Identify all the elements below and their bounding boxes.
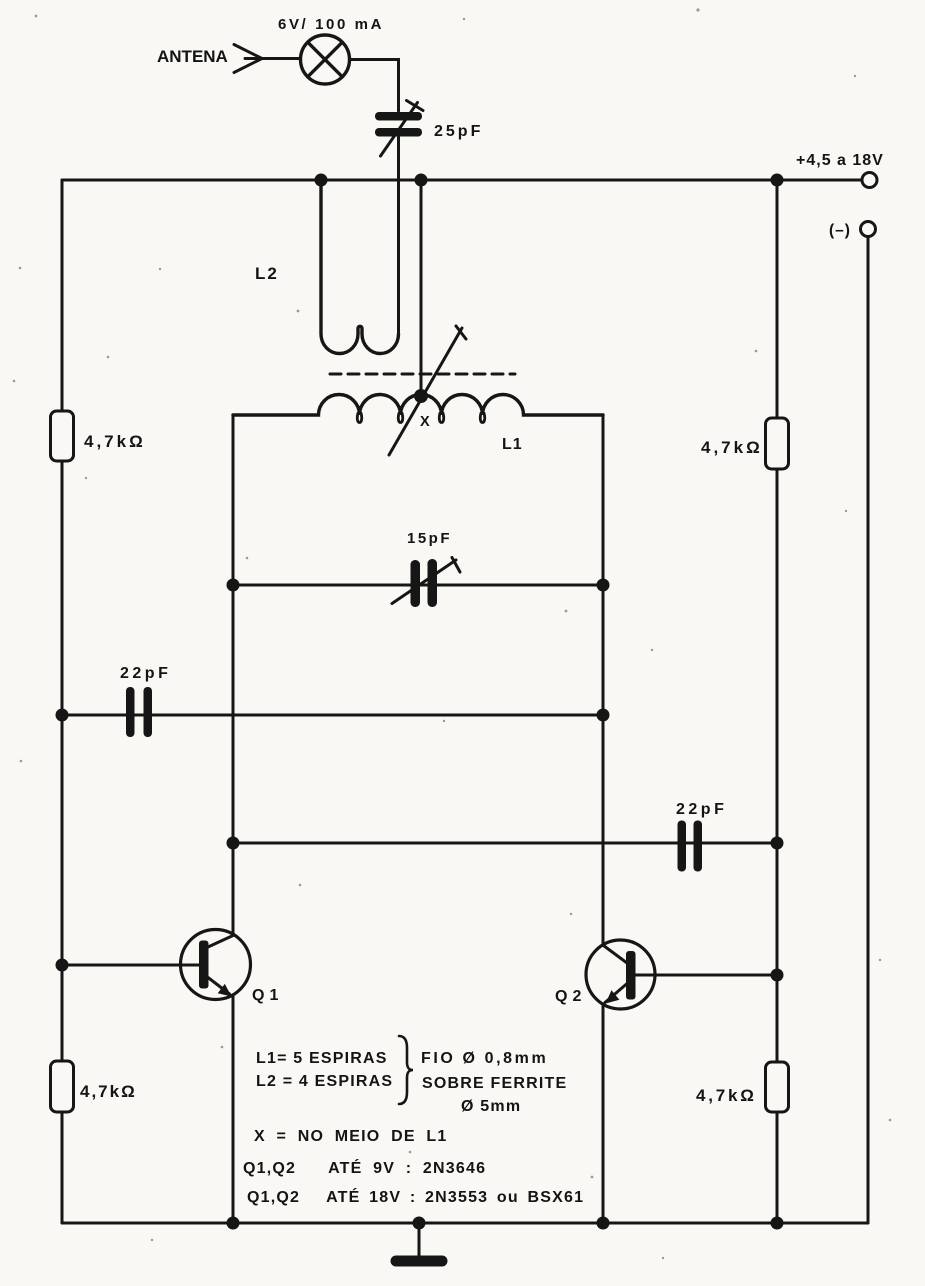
node Q2 base on right rail (771, 969, 784, 982)
svg-text:25pF: 25pF (434, 123, 483, 140)
node bottom bus left tank (227, 1217, 240, 1230)
terminal negative (861, 222, 876, 237)
svg-text:L2: L2 (255, 264, 279, 283)
wire right rail (776, 180, 779, 1223)
inductor L1 adjust arrow (389, 326, 466, 455)
wire right tank line upper (602, 415, 605, 945)
node 15pF right (597, 579, 610, 592)
transistor Q1 (181, 930, 251, 1000)
svg-text:6V/ 100 mA: 6V/ 100 mA (278, 16, 384, 33)
wire negative rail (867, 237, 870, 1223)
node bottom bus right tank (597, 1217, 610, 1230)
svg-text:4,7kΩ: 4,7kΩ (696, 1086, 757, 1105)
inductor L1 turn notches (357, 413, 484, 423)
svg-text:4,7kΩ: 4,7kΩ (80, 1082, 137, 1101)
node bottom bus ground (413, 1217, 426, 1230)
capacitor C4 22pF plates (678, 821, 703, 872)
svg-text:FIO Ø 0,8mm: FIO Ø 0,8mm (421, 1050, 548, 1067)
wire antenna to lamp (245, 57, 301, 60)
core dashed line (330, 373, 515, 376)
svg-text:4,7kΩ: 4,7kΩ (701, 438, 763, 457)
wire Q1 emitter down (232, 995, 235, 1223)
capacitor C1 trimmer arrow (381, 101, 424, 157)
svg-text:X = NO MEIO DE L1: X = NO MEIO DE L1 (254, 1128, 447, 1145)
node 22pF-R on left tank line (227, 837, 240, 850)
resistor R2 4,7k top-right (766, 418, 789, 469)
terminal positive (862, 173, 877, 188)
brace (399, 1036, 413, 1104)
svg-text:(–): (–) (829, 222, 851, 239)
resistor R4 4,7k bottom-right (766, 1062, 789, 1112)
inductor L1 (233, 395, 603, 416)
resistor R1 4,7k top-left (51, 411, 74, 461)
capacitor C2 trimmer arrow (392, 558, 460, 604)
svg-text:22pF: 22pF (676, 801, 727, 818)
svg-text:22pF: 22pF (120, 665, 171, 682)
wire top bus (62, 179, 862, 182)
transistor Q2 (586, 940, 655, 1009)
wire L1 center tap (420, 180, 423, 396)
node L2 junction on bus (315, 174, 328, 187)
capacitor C1 25pF plates (375, 112, 422, 137)
wire 15pF branch (233, 584, 603, 587)
svg-text:Q1,Q2 ATÉ 9V : 2N3646: Q1,Q2 ATÉ 9V : 2N3646 (243, 1158, 486, 1177)
svg-text:Q1: Q1 (252, 987, 283, 1004)
svg-text:Q2: Q2 (555, 988, 586, 1005)
wire capacitor down through bus (L2 right leg) (397, 137, 400, 333)
node right rail junction on bus (771, 174, 784, 187)
svg-text:L1= 5 ESPIRAS: L1= 5 ESPIRAS (256, 1050, 388, 1067)
node 22pF-R on right rail (771, 837, 784, 850)
node bottom bus right rail (771, 1217, 784, 1230)
svg-text:L2 = 4 ESPIRAS: L2 = 4 ESPIRAS (256, 1073, 393, 1090)
svg-text:+4,5 a 18V: +4,5 a 18V (796, 152, 884, 169)
resistor R3 4,7k bottom-left (51, 1061, 74, 1112)
capacitor C3 22pF plates (126, 687, 152, 737)
ground symbol (396, 1223, 442, 1261)
node 22pF-L on right tank line (597, 709, 610, 722)
wire left tank line upper (232, 415, 235, 934)
inductor L2 (321, 180, 399, 354)
svg-text:4,7kΩ: 4,7kΩ (84, 432, 146, 451)
lamp LP1 (301, 35, 350, 84)
svg-text:15pF: 15pF (407, 530, 452, 547)
node X tap on L1 (414, 389, 428, 403)
svg-text:X: X (420, 414, 430, 430)
node 15pF left (227, 579, 240, 592)
svg-text:L1: L1 (502, 436, 523, 453)
node Q1 base on left rail (56, 959, 69, 972)
wire bottom bus (62, 1222, 868, 1225)
wire lamp to capacitor (350, 60, 399, 112)
wire 22pF right branch (233, 842, 777, 845)
wire Q2 emitter down (602, 1004, 605, 1223)
svg-text:Ø 5mm: Ø 5mm (461, 1098, 521, 1115)
wire Q1 base (62, 964, 200, 967)
capacitor C2 15pF plates (411, 559, 438, 607)
wire 22pF left branch (62, 714, 603, 717)
node tap junction on bus (415, 174, 428, 187)
svg-text:ANTENA: ANTENA (157, 47, 228, 66)
wire Q2 base (636, 974, 778, 977)
wire left rail (61, 180, 64, 1223)
svg-text:SOBRE FERRITE: SOBRE FERRITE (422, 1075, 567, 1092)
antenna arrow (234, 45, 262, 73)
node 22pF-L on left rail (56, 709, 69, 722)
svg-text:Q1,Q2 ATÉ 18V : 2N3553 ou BS: Q1,Q2 ATÉ 18V : 2N3553 ou BSX61 (247, 1187, 584, 1206)
